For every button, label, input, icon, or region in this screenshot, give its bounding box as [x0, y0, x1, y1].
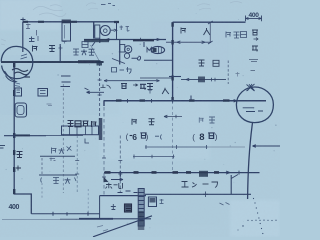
kitchen partition wall x=119.7	[119, 40, 121, 65]
label veranda (engawa)	[182, 182, 218, 188]
dimension line y=147 in 8-mat room	[145, 145, 208, 149]
kitchen stove fixture	[120, 45, 125, 53]
dimension wall line y=39.5	[84, 39, 166, 41]
small arrow between rooms y=116.5	[164, 115, 182, 118]
kitchen sink oval	[151, 46, 165, 53]
dimension tick line x=210	[209, 22, 211, 43]
room label washitsu 6-mat	[132, 119, 155, 125]
kitchen counter edge	[144, 42, 173, 60]
dark note text above closet band	[68, 121, 97, 128]
top wall right section y=22	[173, 21, 246, 23]
wall left bathroom x=22.8	[22, 22, 24, 52]
storeroom bottom dimension line y=42	[166, 41, 211, 43]
WC right wall x=116.5	[116, 22, 118, 39]
bath fixture mark	[29, 37, 35, 43]
wash basin circle (top WC)	[100, 26, 110, 36]
outer wall left x=14 with step	[14, 62, 31, 214]
grid dashed line x=228	[227, 61, 229, 85]
label laundry area	[226, 32, 247, 39]
dimension text "5t" right of WC	[120, 26, 130, 32]
room label dressing room (datsuiishitsu)	[73, 42, 95, 56]
wall y=135.7	[4, 134, 46, 139]
grid dashed line x=77	[75, 136, 79, 194]
dotted path marks bottom right	[238, 198, 277, 234]
tatami block bottom wall y=172.6	[104, 172, 260, 174]
room label entrance (genkan)	[111, 204, 116, 210]
small dark marks top middle	[101, 4, 115, 6]
room label storeroom (monooki) + oshiire	[181, 28, 210, 36]
scan speckles	[3, 8, 277, 228]
label corridor (roka)	[112, 67, 132, 74]
dark wall band (utility)	[84, 39, 109, 42]
faint pencil scribbles top-left	[1, 2, 242, 46]
text row agari / tokonoma / oshiire	[101, 84, 169, 95]
dimension arrow y=80.7 corridor	[104, 80, 160, 82]
tatami block left dashed wall x=104	[103, 101, 105, 196]
hand-drawn annotation circle right	[236, 84, 273, 123]
toilet cistern (top WC)	[95, 25, 100, 38]
zigzag mark inside circle	[21, 54, 28, 59]
hatched entrance door band	[138, 189, 144, 227]
dark note text left wall	[16, 152, 23, 171]
wall top bathroom y=22	[23, 21, 117, 23]
diagonal approach path	[93, 216, 152, 237]
toilet tank and bowl (lower WC)	[15, 88, 22, 96]
closet labels oshiire / monoiri	[41, 146, 76, 184]
door swing mark	[112, 59, 125, 64]
dimension arrow y=146 right	[253, 145, 281, 148]
room label hall	[106, 183, 123, 189]
dimension arrow under 400	[246, 16, 262, 22]
bathtub rect	[62, 23, 71, 42]
entrance (genkan) walls	[100, 189, 157, 231]
scribble squiggle inside circle	[12, 69, 30, 78]
grid dashed line x=42	[41, 158, 43, 174]
veranda (engawa) walls	[145, 175, 251, 206]
room divider dashed x=172.6	[172, 101, 174, 173]
room label bathroom (yokushitsu)	[33, 46, 63, 52]
grid dashed line x=120.3	[118, 136, 122, 193]
shoe cabinet box	[148, 197, 156, 207]
closet wall stub y=76.8	[169, 76, 181, 78]
thick wall y=62	[1, 61, 104, 63]
WC left wall x=93.7	[93, 22, 95, 38]
hand-drawn annotation circle left	[1, 46, 33, 78]
steps marks left corridor	[61, 76, 71, 87]
tiny note right of shoe cabinet	[160, 199, 164, 204]
right margin note column	[249, 30, 258, 71]
north-arrow triangle and arrow	[104, 177, 109, 183]
tatami block top wall y=100.8	[104, 100, 267, 102]
dimension line y=156.5 in 6-mat room	[133, 155, 175, 159]
bath/dressing divider wall x=60	[59, 44, 61, 62]
bottom boundary walls	[2, 212, 152, 237]
washstand box fixture	[38, 89, 48, 97]
sink faucet mark	[147, 48, 151, 53]
main cross wall x=172.6	[172, 22, 174, 101]
central closet band with cells	[62, 118, 103, 143]
closet shelf lines	[40, 155, 75, 157]
corridor arrow y=92	[87, 91, 105, 94]
room label washitsu 8-mat	[199, 117, 215, 123]
grid dashed line x=99.6	[99, 63, 101, 120]
dimension row y=79.5 with door blob	[181, 79, 226, 81]
right slanted wall line	[248, 122, 253, 199]
grid dashed line x=63.3	[62, 84, 64, 193]
